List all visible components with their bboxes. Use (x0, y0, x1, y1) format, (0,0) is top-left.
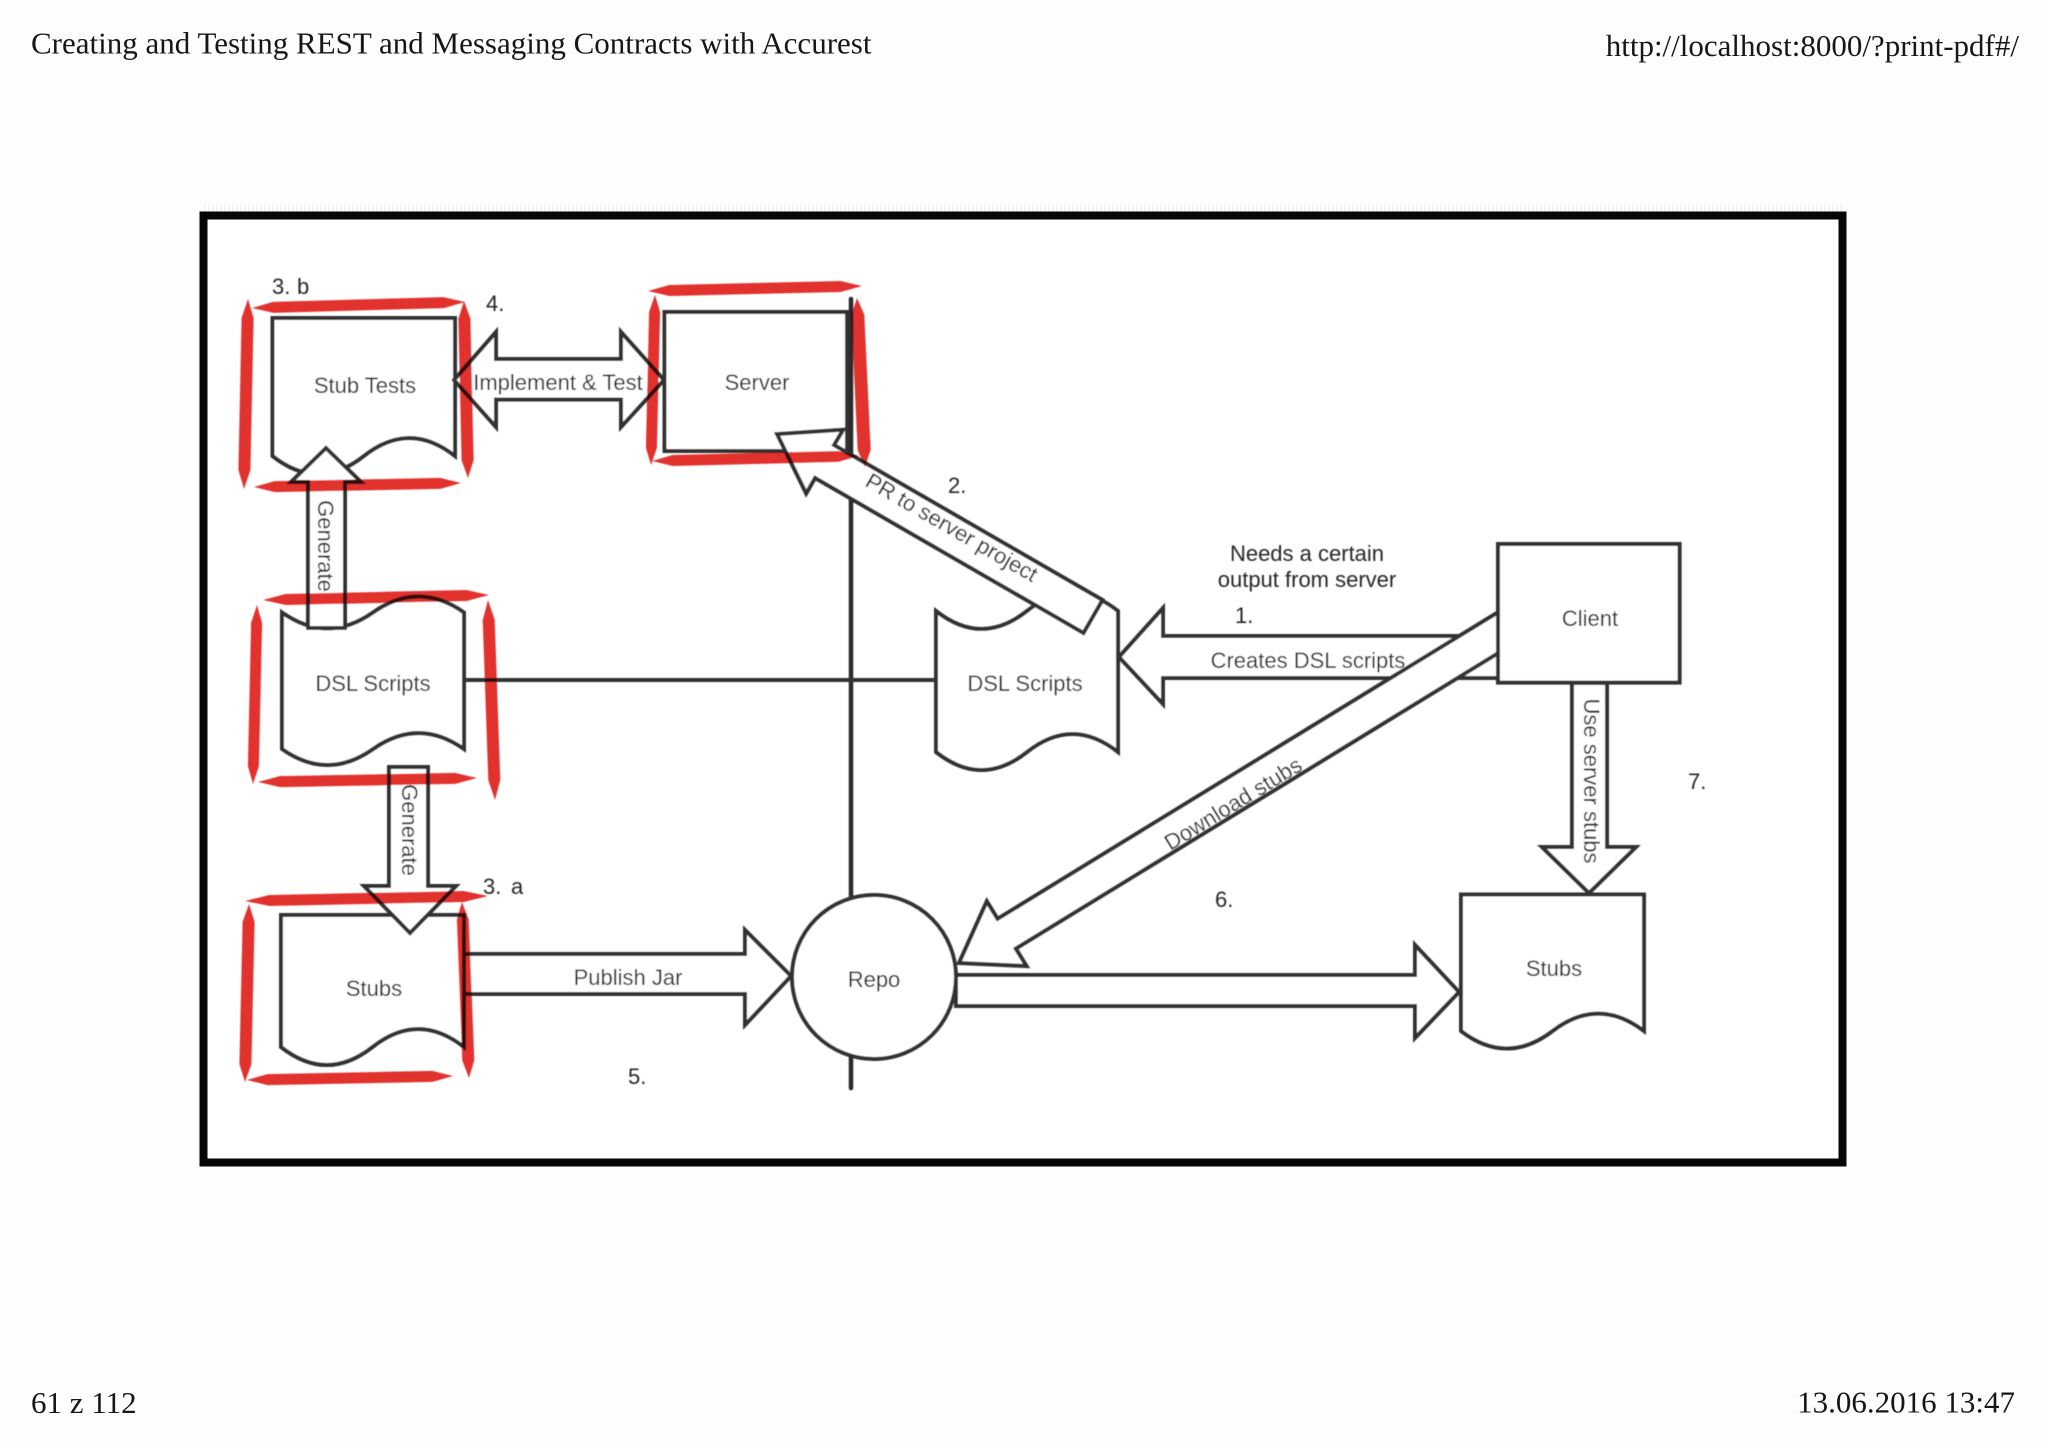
svg-text:4.: 4. (486, 291, 504, 316)
svg-text:http://localhost:8000/?print-p: http://localhost:8000/?print-pdf#/ (1606, 28, 2020, 63)
svg-text:Use server stubs: Use server stubs (1579, 698, 1604, 863)
svg-text:3.: 3. (272, 274, 290, 299)
svg-text:Creates DSL scripts: Creates DSL scripts (1211, 648, 1406, 673)
svg-text:Generate: Generate (397, 784, 422, 876)
svg-text:1.: 1. (1235, 603, 1253, 628)
svg-text:output from server: output from server (1218, 567, 1397, 592)
svg-text:2.: 2. (948, 473, 966, 498)
svg-text:13.06.2016 13:47: 13.06.2016 13:47 (1797, 1385, 2015, 1420)
svg-text:b: b (297, 274, 309, 299)
svg-text:Stub Tests: Stub Tests (314, 373, 416, 398)
svg-text:Server: Server (725, 370, 790, 395)
svg-text:3.: 3. (483, 874, 501, 899)
svg-text:Stubs: Stubs (1526, 956, 1582, 981)
svg-text:Generate: Generate (313, 500, 338, 592)
svg-text:DSL Scripts: DSL Scripts (967, 671, 1082, 696)
svg-text:5.: 5. (628, 1064, 646, 1089)
svg-text:Publish Jar: Publish Jar (574, 965, 683, 990)
svg-text:7.: 7. (1688, 769, 1706, 794)
svg-text:DSL Scripts: DSL Scripts (315, 671, 430, 696)
svg-text:6.: 6. (1215, 887, 1233, 912)
svg-text:Repo: Repo (848, 967, 901, 992)
svg-text:Needs a certain: Needs a certain (1230, 541, 1384, 566)
svg-text:Implement & Test: Implement & Test (473, 370, 643, 395)
svg-text:Client: Client (1562, 606, 1618, 631)
svg-text:61 z 112: 61 z 112 (31, 1385, 137, 1420)
svg-text:Stubs: Stubs (346, 976, 402, 1001)
svg-text:Creating and Testing REST and: Creating and Testing REST and Messaging … (31, 26, 872, 61)
svg-text:a: a (511, 874, 524, 899)
